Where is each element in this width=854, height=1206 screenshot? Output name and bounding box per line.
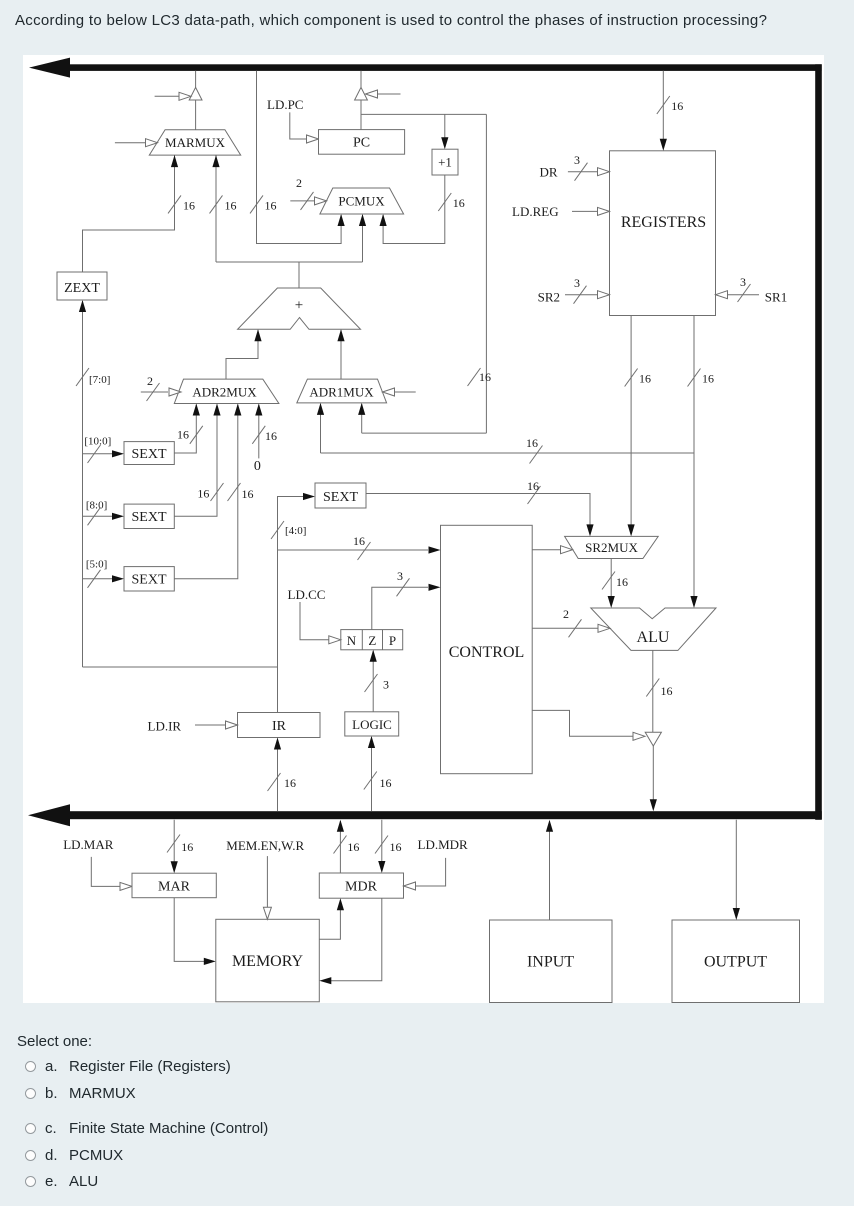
box LOGIC: [345, 712, 399, 736]
wire NZP condition codes to CONTROL, 3 bits: [372, 587, 428, 629]
svg-text:2: 2: [296, 176, 302, 190]
svg-text:LD.IR: LD.IR: [148, 719, 182, 734]
wire LD.CC load enable into NZP: [300, 602, 330, 640]
mux PCMUX: [320, 188, 404, 214]
svg-text:N: N: [347, 633, 357, 648]
svg-text:16: 16: [661, 684, 673, 698]
control select 2 bits into PCMUX: [290, 200, 315, 202]
wire SR2MUX output to ALU input A, 16 bits: [610, 559, 612, 598]
svg-text:16: 16: [197, 487, 209, 501]
mux MARMUX: [149, 130, 240, 155]
svg-text:16: 16: [225, 199, 237, 213]
wire into +1 incrementer: [444, 114, 446, 138]
device OUTPUT: [672, 920, 800, 1003]
svg-text:PCMUX: PCMUX: [338, 194, 385, 209]
svg-text:16: 16: [702, 372, 714, 386]
register MAR: [132, 873, 216, 898]
svg-text:SR1: SR1: [765, 290, 787, 305]
wire LD.PC load enable into PC: [290, 112, 308, 139]
wire tee to PCMUX input 2: [362, 215, 364, 262]
wire ADR2MUX output to adder input A: [226, 330, 258, 379]
svg-text:LD.CC: LD.CC: [288, 587, 326, 602]
svg-text:2: 2: [147, 374, 153, 388]
wire bus to REGISTERS input, 16 bits: [662, 71, 664, 139]
wire bus to LOGIC, 16 bits: [371, 737, 373, 811]
svg-text:Z: Z: [368, 633, 376, 648]
svg-text:ALU: ALU: [637, 629, 670, 646]
wire SR1 output of REGISTERS down to ALU input B, 16 bits: [693, 316, 695, 598]
bus: right segment: [815, 64, 822, 820]
control arrow into GateALU: [532, 710, 634, 736]
wire ZEXT input line from IR tee, bits [7:0]: [82, 301, 84, 667]
wire MEMORY to MDR: [319, 910, 340, 939]
svg-text:SEXT: SEXT: [132, 510, 167, 525]
wire bus to MAR, 16 bits: [173, 820, 175, 862]
svg-text:CONTROL: CONTROL: [449, 644, 525, 661]
svg-text:+: +: [295, 298, 303, 314]
wire bus to PCMUX input 1, 16 bits: [257, 71, 342, 244]
device INPUT: [490, 920, 613, 1003]
wire adder output tee: [298, 262, 300, 288]
svg-text:DR: DR: [540, 165, 558, 180]
control unit CONTROL (finite state machine): [441, 525, 533, 773]
control select 2 bits into ADR2MUX: [141, 391, 168, 393]
svg-text:[10:0]: [10:0]: [84, 436, 111, 448]
svg-text:3: 3: [574, 276, 580, 290]
register MDR: [319, 873, 403, 898]
svg-text:IR: IR: [272, 719, 287, 734]
control arrow into SR2MUX select: [532, 549, 561, 551]
svg-text:OUTPUT: OUTPUT: [704, 954, 767, 971]
svg-text:MEMORY: MEMORY: [232, 953, 304, 970]
svg-text:MAR: MAR: [158, 880, 191, 895]
svg-text:SR2: SR2: [538, 290, 560, 305]
control arrow into GatePC: [376, 93, 401, 95]
svg-text:16: 16: [284, 776, 296, 790]
wire bus to GateMARMUX and MARMUX output: [195, 71, 197, 88]
svg-text:16: 16: [353, 534, 365, 548]
svg-text:3: 3: [383, 678, 389, 692]
svg-text:16: 16: [526, 436, 538, 450]
wire GateALU to bus: [652, 746, 654, 800]
register file REGISTERS: [610, 151, 716, 316]
mux SR2MUX: [565, 536, 659, 558]
wire +1 output to PCMUX input 3, 16 bits: [383, 175, 445, 244]
register PC: [319, 130, 405, 155]
svg-text:MEM.EN,W.R: MEM.EN,W.R: [226, 838, 304, 853]
svg-text:[4:0]: [4:0]: [285, 525, 306, 537]
svg-text:0: 0: [254, 459, 261, 474]
wire PC output tee to +1 and ADR1MUX: [361, 113, 486, 115]
box SEXT for bits [8:0]: [124, 504, 174, 528]
wire SEXT[4:0] output to SR2MUX input 1, 16 bits: [366, 494, 590, 526]
svg-text:16: 16: [265, 429, 277, 443]
control ALUK 2 bits into ALU: [532, 627, 599, 629]
svg-text:LD.MDR: LD.MDR: [418, 837, 469, 852]
wire adder tee to MARMUX input 2, 16 bits: [215, 155, 217, 262]
svg-text:2: 2: [563, 607, 569, 621]
svg-text:16: 16: [453, 196, 465, 210]
svg-text:LD.PC: LD.PC: [267, 97, 303, 112]
adder (+): [238, 288, 361, 329]
wire LOGIC to NZP, 3 bits: [372, 651, 374, 712]
svg-text:16: 16: [616, 575, 628, 589]
wire bus to MDR, 16 bits: [381, 820, 383, 862]
svg-text:ADR1MUX: ADR1MUX: [309, 385, 374, 400]
svg-text:16: 16: [671, 99, 683, 113]
wire ZEXT to MARMUX input 1, 16 bits: [83, 155, 175, 272]
box ZEXT: [57, 272, 107, 300]
wire ALU output to GateALU, 16 bits: [652, 650, 654, 732]
svg-text:16: 16: [527, 479, 539, 493]
wire IR to CONTROL, 16 bits: [278, 549, 429, 551]
wire SR1 long line to ADR1MUX input 1, 16 bits: [321, 452, 695, 454]
wire SEXT[10:0] output to ADR2MUX input 1, 16 bits: [174, 405, 196, 454]
svg-text:+1: +1: [438, 155, 452, 170]
svg-text:LD.REG: LD.REG: [512, 204, 559, 219]
wire SR2 output of REGISTERS to SR2MUX, 16 bits: [630, 316, 632, 526]
box SEXT for bits [10:0]: [124, 442, 174, 465]
svg-text:16: 16: [181, 840, 193, 854]
control arrow into ADR1MUX select: [393, 391, 416, 393]
svg-text:PC: PC: [353, 136, 370, 151]
svg-text:16: 16: [265, 199, 277, 213]
wire constant 0 to ADR2MUX input 4, 16 bits: [258, 405, 260, 459]
svg-text:ZEXT: ZEXT: [64, 281, 100, 296]
svg-text:3: 3: [574, 153, 580, 167]
svg-text:3: 3: [397, 569, 403, 583]
wire IR tee to ZEXT line: [83, 666, 278, 668]
control arrow into GateMARMUX: [155, 95, 180, 97]
svg-text:16: 16: [347, 840, 359, 854]
wire MDR to MEMORY: [331, 898, 382, 981]
svg-text:16: 16: [380, 776, 392, 790]
svg-text:SR2MUX: SR2MUX: [585, 540, 638, 555]
control arrow into MARMUX select: [115, 142, 146, 144]
svg-text:REGISTERS: REGISTERS: [621, 214, 706, 231]
svg-text:LOGIC: LOGIC: [352, 717, 392, 732]
bus: bottom segment with left arrowhead: [63, 811, 822, 819]
svg-text:[7:0]: [7:0]: [89, 374, 110, 386]
wire MAR to MEMORY: [174, 898, 204, 962]
wire SEXT[8:0] output to ADR2MUX input 2, 16 bits: [174, 405, 217, 517]
gate GateMARMUX (tri-state buffer): [189, 87, 202, 100]
svg-text:LD.MAR: LD.MAR: [63, 837, 114, 852]
svg-text:16: 16: [183, 199, 195, 213]
wire PC down to ADR1MUX input 2, 16 bits: [362, 432, 487, 434]
svg-text:[8:0]: [8:0]: [86, 500, 107, 512]
box SEXT for bits [5:0]: [124, 567, 174, 591]
svg-text:MARMUX: MARMUX: [165, 135, 226, 150]
wire INPUT to bus: [549, 821, 551, 920]
mux ADR1MUX: [297, 379, 387, 403]
svg-text:ADR2MUX: ADR2MUX: [192, 385, 257, 400]
svg-text:16: 16: [479, 370, 491, 384]
svg-text:16: 16: [242, 487, 254, 501]
wire IR output up to SEXT[4:0], with [4:0] slash: [278, 497, 305, 713]
gate GatePC (tri-state buffer): [355, 87, 368, 100]
wire SEXT[5:0] output to ADR2MUX input 3, 16 bits: [174, 405, 238, 579]
svg-text:16: 16: [390, 840, 402, 854]
svg-text:SEXT: SEXT: [132, 447, 167, 462]
wire ADR1MUX output to adder input B: [340, 330, 342, 379]
alu ALU: [591, 608, 716, 650]
register IR instruction register: [238, 713, 321, 738]
gate GateALU (tri-state buffer): [645, 732, 661, 746]
svg-text:SEXT: SEXT: [323, 490, 358, 505]
svg-text:MDR: MDR: [345, 880, 378, 895]
mux ADR2MUX: [174, 379, 279, 403]
svg-text:16: 16: [177, 428, 189, 442]
svg-text:[5:0]: [5:0]: [86, 559, 107, 571]
wire bus to GatePC and PC top: [360, 71, 362, 88]
register NZP condition codes: [341, 630, 403, 650]
svg-text:SEXT: SEXT: [132, 573, 167, 588]
memory MEMORY: [216, 919, 319, 1002]
svg-text:16: 16: [639, 372, 651, 386]
svg-text:P: P: [389, 633, 396, 648]
svg-text:INPUT: INPUT: [527, 954, 574, 971]
box SEXT for bits [4:0]: [315, 483, 366, 508]
wire MDR to bus, 16 bits: [339, 821, 341, 873]
bus: top segment with left arrowhead: [63, 64, 822, 71]
svg-text:3: 3: [740, 275, 746, 289]
wire bus to OUTPUT: [735, 820, 737, 909]
box +1 incrementer: [432, 149, 458, 175]
wire bus to IR, 16 bits: [277, 739, 279, 812]
